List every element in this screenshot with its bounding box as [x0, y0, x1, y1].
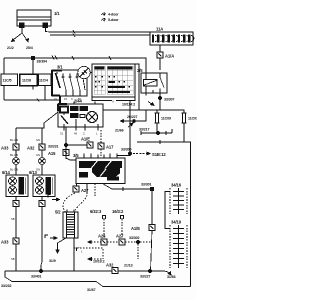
wire split to fuses	[139, 110, 184, 113]
svg-text:2/44: 2/44	[74, 99, 83, 104]
wire 5/2 to ground arrow 31/9	[56, 238, 66, 253]
svg-text:31/67: 31/67	[87, 288, 96, 292]
splice circle chain2	[39, 158, 46, 165]
svg-text:11C09: 11C09	[161, 117, 171, 121]
footnote arrow 1a	[48, 195, 60, 201]
key symbol	[78, 66, 90, 78]
svg-text:31: 31	[60, 132, 63, 136]
svg-text:33/300: 33/300	[121, 148, 131, 152]
footnote arrow 1	[45, 235, 57, 239]
svg-text:A1/E: A1/E	[81, 137, 90, 142]
svg-text:33/301: 33/301	[141, 183, 151, 187]
chain 1: A33 top	[13, 144, 19, 150]
svg-text:A32: A32	[27, 146, 35, 151]
svg-text:5/2: 5/2	[55, 210, 61, 215]
svg-text:A33: A33	[1, 240, 9, 245]
svg-text:34/19: 34/19	[171, 220, 182, 225]
fuse 11C01	[181, 113, 186, 123]
wire 2/44 output to lamp bus	[16, 112, 58, 144]
svg-text:6/32:3: 6/32:3	[90, 209, 102, 214]
left ground drop to 33/232	[5, 271, 96, 282]
svg-text:34/16: 34/16	[171, 183, 182, 188]
3/5 bottom pins	[86, 184, 88, 195]
svg-text:21/66: 21/66	[115, 129, 124, 133]
wire matrix to 2/44 feed	[135, 64, 139, 110]
left bus continues down	[3, 86, 5, 101]
svg-text:11C/8: 11C/8	[22, 79, 31, 83]
wire M line to right edge	[137, 140, 191, 287]
connector A27b	[119, 239, 125, 245]
svg-text:3/5: 3/5	[73, 153, 79, 158]
wire fuse 11C09 down to 33/217 row	[156, 123, 158, 133]
svg-text:33/302: 33/302	[129, 236, 139, 240]
svg-text:33/401: 33/401	[31, 275, 41, 279]
wire 2/44 pin down to 33/231	[65, 127, 67, 159]
svg-text:33/394: 33/394	[37, 60, 47, 64]
svg-text:BL-GN: BL-GN	[10, 153, 18, 157]
wire into 34/16	[165, 192, 170, 229]
svg-text:A15: A15	[48, 151, 56, 156]
wire 11A down to A1/A	[159, 45, 161, 52]
splice circle chain1	[13, 158, 20, 165]
ground jog 31/67	[96, 282, 191, 287]
svg-text:11C/4: 11C/4	[39, 79, 48, 83]
wire 33/301 vertical	[151, 191, 153, 225]
svg-text:K: K	[113, 100, 115, 104]
svg-text:11C01: 11C01	[188, 117, 197, 121]
arrow to S1B:12	[133, 152, 150, 155]
wire 33/394 down to fuse	[32, 59, 34, 74]
svg-text:31/9: 31/9	[49, 259, 56, 263]
battery 1/1	[17, 10, 51, 28]
junction 33/307	[158, 96, 161, 99]
svg-text:GN: GN	[36, 138, 40, 142]
svg-text:A1/E: A1/E	[131, 226, 140, 231]
svg-text:SB: SB	[11, 217, 15, 221]
svg-text:33/227: 33/227	[140, 275, 150, 279]
svg-text:31/66: 31/66	[167, 275, 176, 279]
junction 33/302	[137, 241, 140, 244]
svg-text:33/232: 33/232	[1, 284, 11, 288]
dashed branch to 10/19:2	[74, 248, 103, 259]
node 33/217 row	[141, 129, 172, 135]
K bracket under table	[92, 97, 135, 101]
wire from K bracket down	[129, 101, 131, 154]
svg-text:S1B:12: S1B:12	[152, 152, 166, 157]
svg-text:31: 31	[54, 97, 57, 101]
fuse 11C4	[39, 74, 52, 100]
dashed option line with A26 A27	[91, 241, 151, 243]
svg-text:A17: A17	[106, 145, 114, 150]
ground bus	[5, 270, 163, 272]
arrow to 25/4	[22, 33, 29, 42]
wire relay to 33/307	[159, 93, 161, 110]
ignition position table	[92, 64, 135, 97]
svg-text:A27: A27	[116, 234, 124, 239]
wire to A1/E	[67, 144, 87, 146]
chain 2: A32 top	[39, 144, 45, 150]
fuse 11CA	[1, 72, 18, 88]
dashed down to 21/13	[137, 244, 139, 259]
node 33/300	[128, 152, 131, 155]
svg-text:3/1: 3/1	[57, 65, 63, 70]
svg-text:A1/A: A1/A	[165, 54, 174, 59]
svg-text:33/231: 33/231	[48, 145, 58, 149]
junction 33/301	[150, 187, 153, 190]
relay pin stub	[145, 93, 147, 96]
connector A1/A	[157, 52, 163, 58]
svg-text:GN: GN	[36, 153, 40, 157]
svg-text:A32: A32	[106, 263, 114, 268]
svg-text:1/1: 1/1	[54, 11, 60, 16]
svg-text:2/5: 2/5	[137, 68, 143, 73]
svg-text:21/13: 21/13	[124, 264, 133, 268]
svg-text:49: 49	[74, 132, 77, 136]
svg-text:15: 15	[64, 97, 67, 101]
svg-text:33/217: 33/217	[139, 128, 149, 132]
thick path 3/1 to 2/44	[59, 96, 61, 105]
svg-text:10/19:2: 10/19:2	[93, 260, 105, 264]
left bus down	[3, 58, 5, 74]
branch 31/66	[163, 271, 171, 275]
wire 3/5 out to 33/301	[104, 184, 151, 190]
bus 30-feed horizontal	[4, 56, 146, 74]
fuse 11CB	[20, 74, 38, 86]
footnote mark 1b	[77, 248, 80, 251]
svg-text:21/2: 21/2	[7, 46, 14, 50]
svg-text:A26: A26	[98, 234, 106, 239]
connector A26	[101, 239, 107, 245]
wire 5/2 down to ground bus	[73, 238, 75, 271]
svg-text:4-door: 4-door	[108, 13, 119, 17]
dashed loom oval to 5/2	[63, 193, 87, 212]
svg-text:5-door: 5-door	[108, 18, 119, 22]
junction 33/231	[65, 144, 68, 147]
connector A17	[100, 130, 102, 143]
svg-text:C: C	[83, 132, 85, 136]
svg-text:A33: A33	[1, 146, 9, 151]
arrow 21/66b	[128, 123, 133, 127]
junction 33/227	[148, 269, 151, 272]
arrow to 21/2	[12, 33, 23, 42]
svg-text:A27: A27	[81, 188, 89, 193]
connector A27	[73, 186, 79, 192]
svg-text:11A: 11A	[156, 27, 163, 32]
svg-text:11C/5: 11C/5	[3, 79, 12, 83]
connector A32 lower	[112, 268, 118, 274]
branch 20/227	[121, 110, 147, 123]
wire fuse 11C01 down to M line	[183, 123, 185, 142]
legend 4-door / 5-door	[102, 13, 106, 21]
connector A1/E lower	[149, 225, 155, 231]
junction 33/394	[32, 57, 35, 60]
2/44 pin stubs	[64, 127, 98, 131]
fuse 11C09	[154, 113, 159, 123]
wire 33/300 down into 3/5	[117, 155, 130, 158]
svg-text:BL-GN: BL-GN	[10, 168, 18, 172]
svg-text:20/227: 20/227	[127, 115, 137, 119]
svg-text:SB: SB	[11, 257, 15, 261]
bus to 2/44	[4, 99, 60, 105]
fuse 11CB bottom stub	[32, 86, 34, 90]
connector A1/E	[87, 142, 93, 148]
lamp 6/13 bottom connector	[39, 197, 45, 207]
wire 2/44 right to relay pin	[103, 109, 140, 111]
arrow 10/19:2	[88, 257, 103, 260]
wire battery left terminal down	[21, 28, 23, 34]
svg-text:BL-GN: BL-GN	[10, 138, 18, 142]
svg-text:10/114:2: 10/114:2	[122, 103, 135, 107]
svg-text:X: X	[71, 97, 73, 101]
svg-text:16/3:2: 16/3:2	[112, 209, 124, 214]
wire battery plus cable to 11A (double line)	[46, 28, 151, 38]
junction 33/401	[39, 269, 42, 272]
wire A1/A down to relay 2/5	[159, 58, 161, 70]
svg-text:GN: GN	[36, 168, 40, 172]
svg-text:33/307: 33/307	[164, 98, 174, 102]
lamp 6/14 bottom connector	[13, 197, 19, 207]
arrow 10/114:2	[148, 102, 154, 106]
svg-text:25/4: 25/4	[26, 46, 33, 50]
connector A33 lower	[13, 238, 19, 244]
